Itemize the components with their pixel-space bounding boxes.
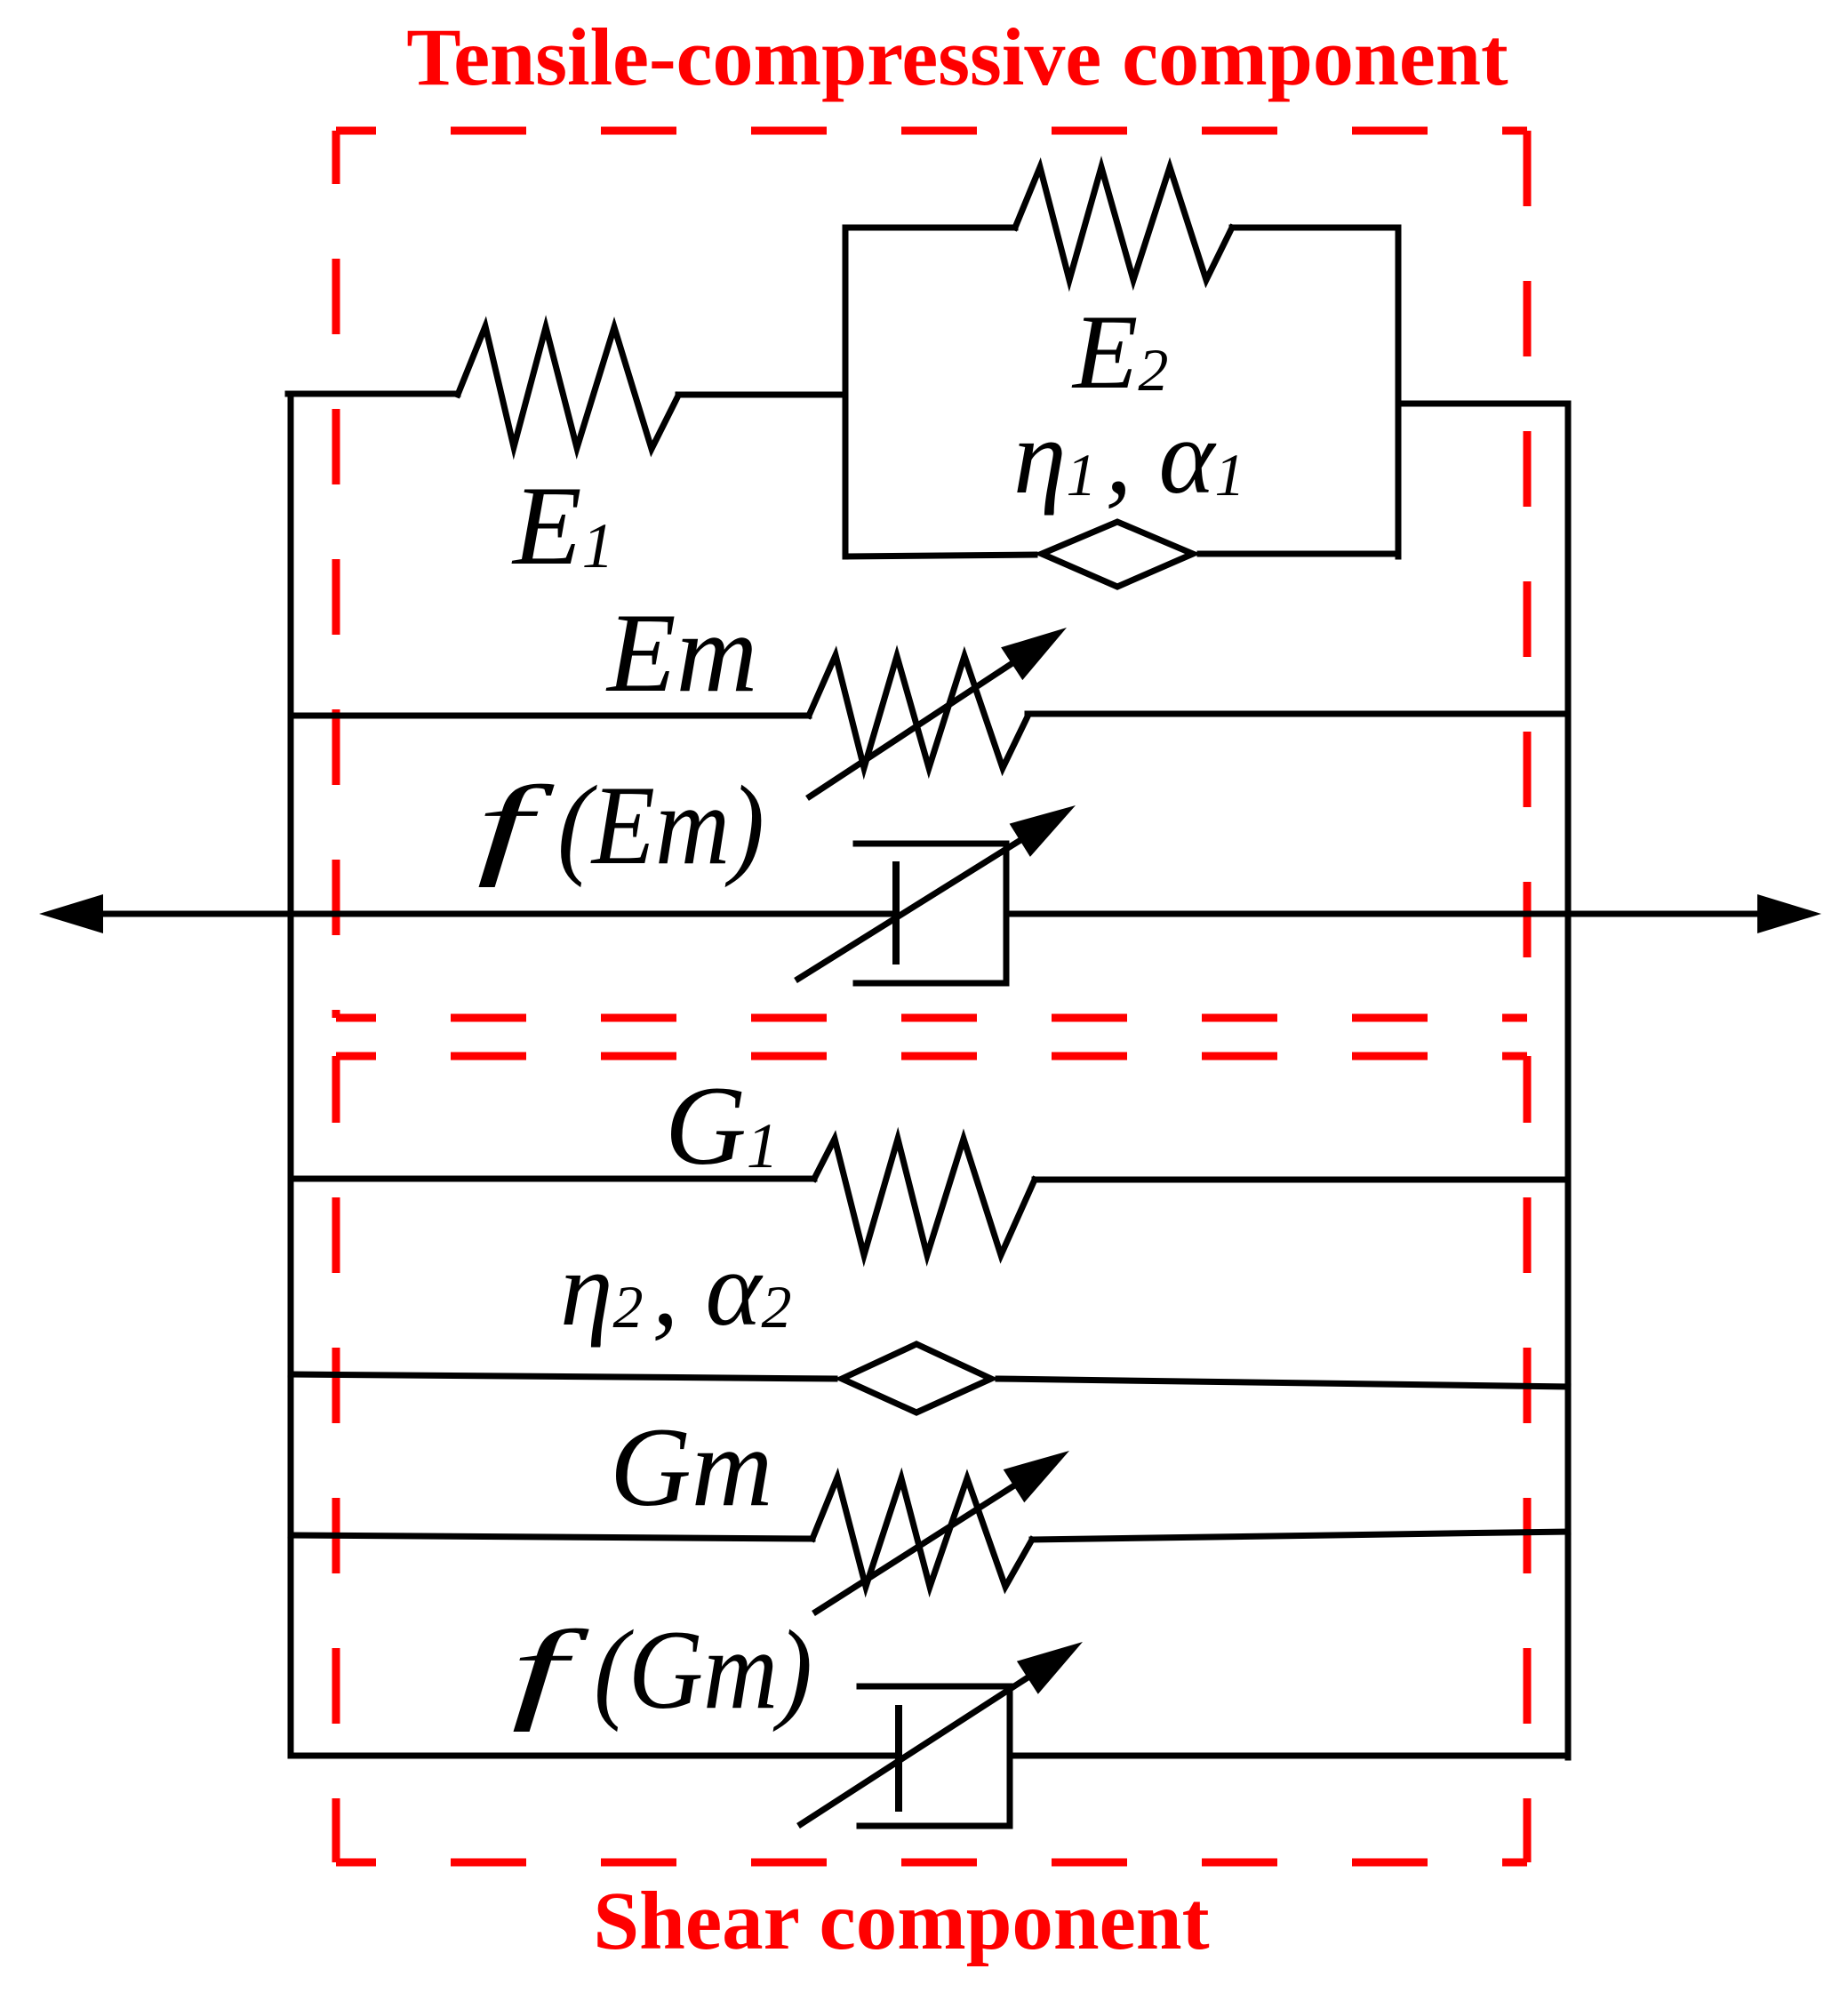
E2 box right edge: [1396, 228, 1402, 556]
dashpot diamond η2,α2: [842, 1344, 991, 1413]
wire: axis to piston of dashpot f(Em): [291, 911, 896, 917]
wire: variable spring Em to right bus: [1028, 711, 1568, 717]
arrow through dashpot f(Em): [796, 837, 1025, 980]
svg-text:Shear component: Shear component: [593, 1876, 1209, 1967]
main load axis left wire with arrow: [98, 911, 899, 917]
svg-text:Tensile-compressive component: Tensile-compressive component: [406, 12, 1508, 102]
main load axis right wire with arrow: [1006, 911, 1763, 917]
left bus wire: [288, 394, 294, 1756]
wire: dashpot diamond η2,α2 to right bus: [998, 1379, 1568, 1387]
arrow through dashpot f(Gm): [798, 1675, 1032, 1826]
wire: variable spring Gm to right bus: [1032, 1532, 1568, 1540]
dashpot f(Em) cylinder: [856, 844, 1006, 983]
wire: left bus to variable spring Gm: [291, 1535, 812, 1539]
svg-text:η2, α2: η2, α2: [560, 1229, 792, 1348]
E2 parallel box left edge: [843, 228, 849, 556]
dashpot f(Gm) cylinder: [860, 1686, 1010, 1826]
variable spring Gm: [812, 1477, 1032, 1587]
E2 box top wire left: [845, 225, 1015, 231]
E2 box bottom wire left: [845, 555, 1035, 556]
dashed box: tensile-compressive region: [336, 131, 1527, 1018]
spring E1: [458, 326, 678, 449]
svg-text:f(Gm): f(Gm): [511, 1608, 812, 1733]
wire: spring G1 to right bus: [1035, 1177, 1568, 1183]
arrow through spring Em: [807, 660, 1018, 798]
svg-text:η1, α1: η1, α1: [1013, 397, 1245, 516]
wire: left bus to spring E1: [288, 391, 458, 397]
wire: spring E1 to E2 box: [678, 392, 845, 398]
dashpot f(Em) piston: [892, 865, 900, 961]
svg-text:Gm: Gm: [610, 1405, 772, 1530]
spring G1: [814, 1139, 1035, 1255]
E2 box top wire right: [1232, 225, 1398, 231]
wire: left bus to spring G1: [291, 1176, 814, 1182]
wire: dashpot f(Gm) to right bus: [1010, 1753, 1568, 1759]
wire: left bus to variable spring Em: [291, 713, 809, 719]
svg-text:Em: Em: [605, 591, 757, 716]
spring E2: [1015, 167, 1232, 280]
variable spring Em: [809, 655, 1028, 768]
wire: E2 box to right bus: [1398, 401, 1568, 407]
arrow through spring Gm: [813, 1483, 1019, 1613]
wire: left bus to piston of dashpot f(Gm): [291, 1753, 899, 1759]
E2 box bottom wire right: [1200, 551, 1398, 557]
wire: left bus to dashpot diamond η2,α2: [291, 1374, 835, 1379]
right bus wire: [1565, 404, 1572, 1757]
dashpot f(Gm) piston: [895, 1709, 902, 1808]
dashpot diamond η1,α1: [1042, 522, 1193, 587]
svg-text:f(Em): f(Em): [476, 764, 764, 888]
dashed box: shear region: [336, 1056, 1527, 1862]
